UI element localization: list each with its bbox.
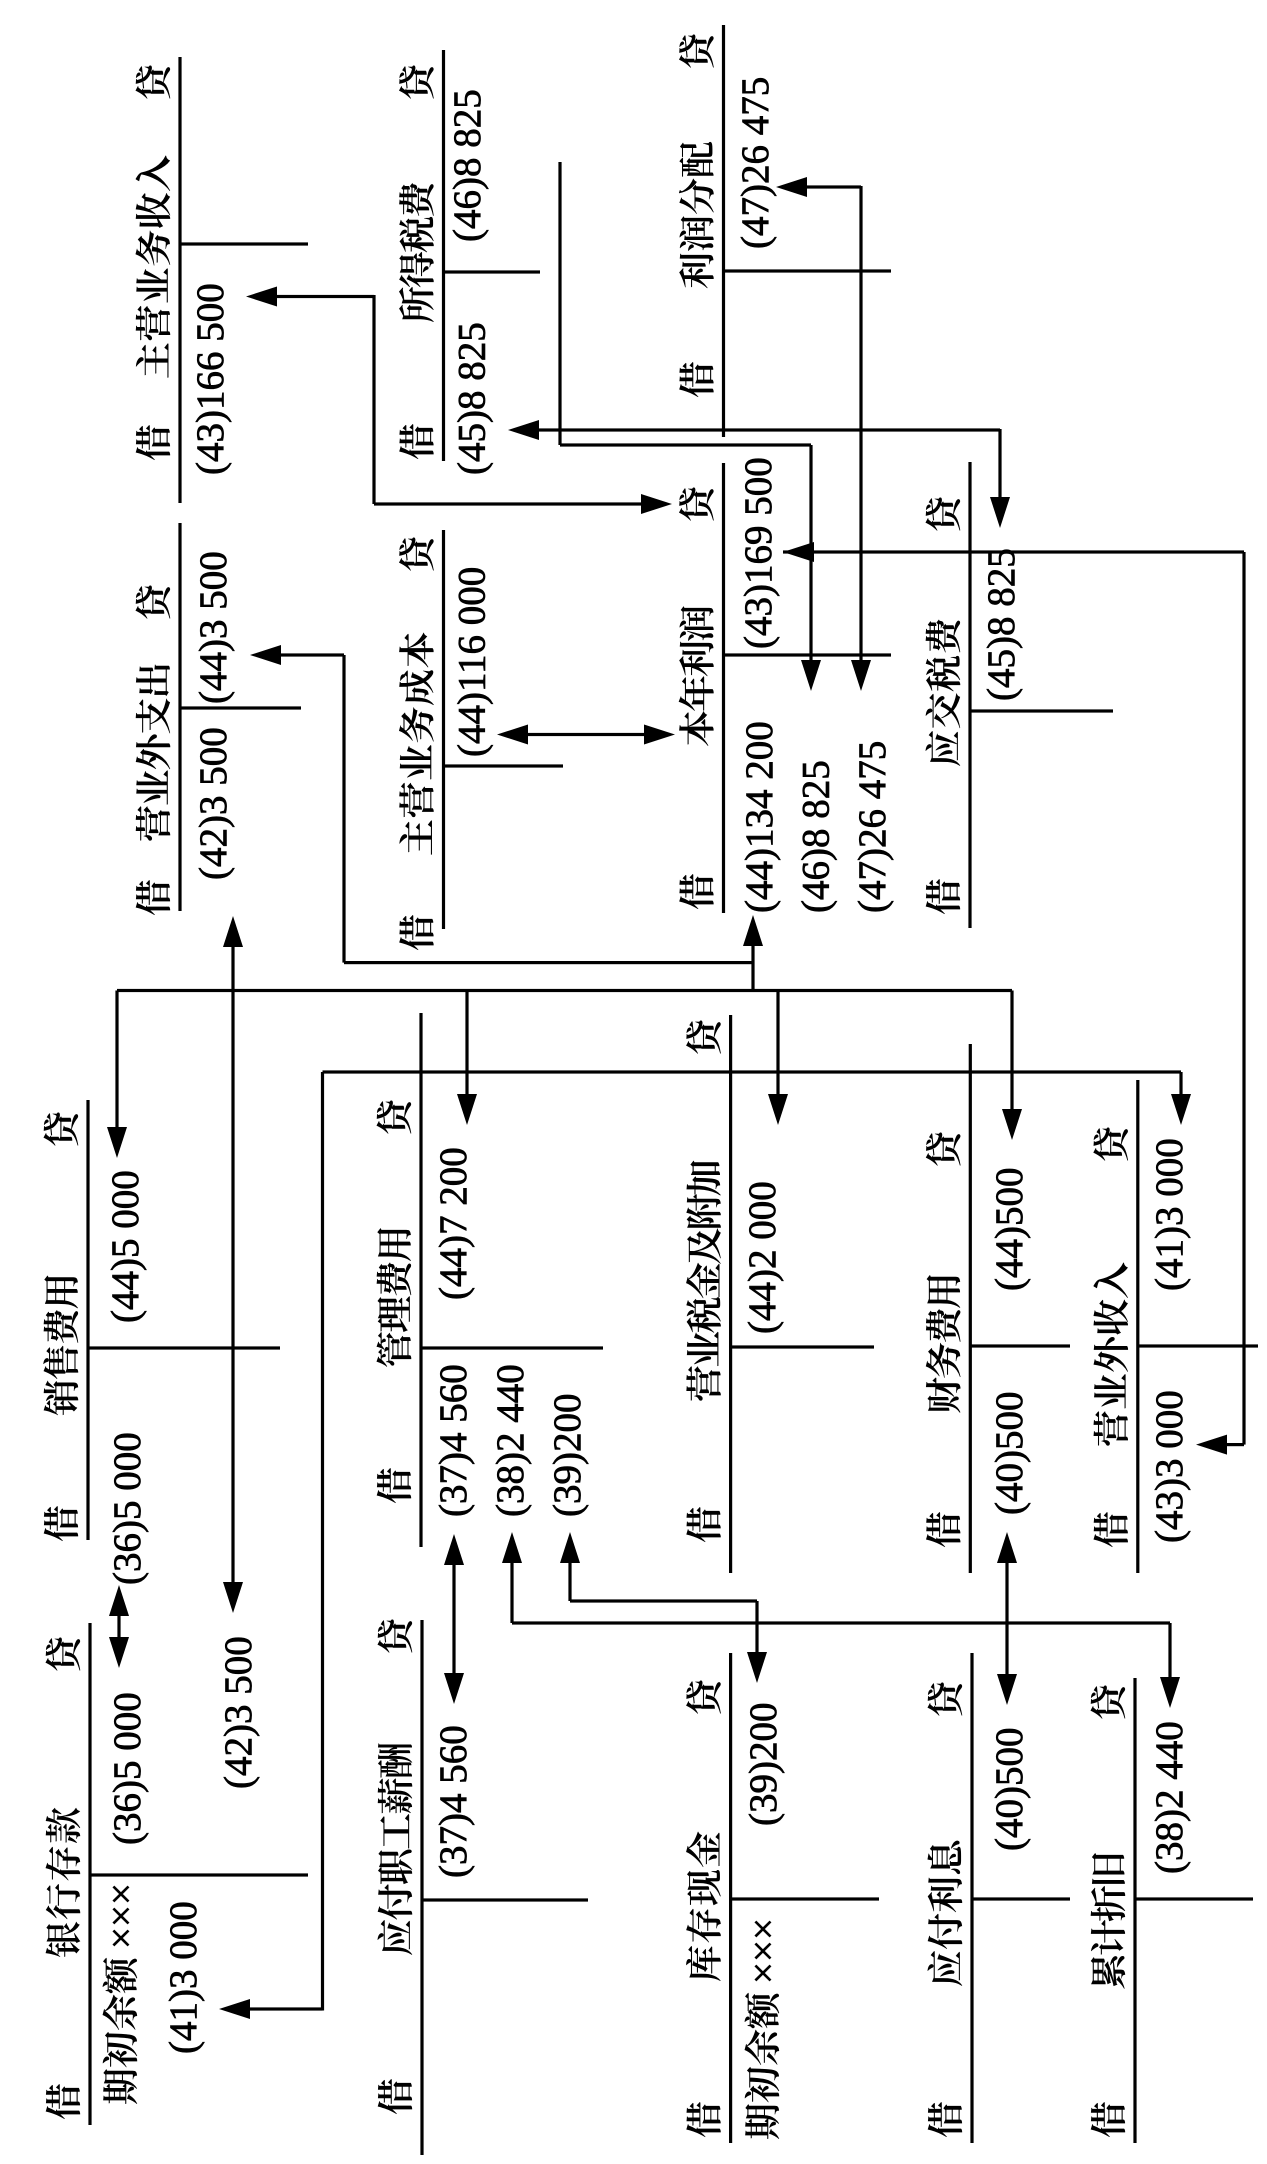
- svg-text:(36)5 000: (36)5 000: [106, 1692, 149, 1845]
- svg-text:(46)8 825: (46)8 825: [446, 89, 489, 242]
- svg-text:(44)5 000: (44)5 000: [104, 1170, 147, 1323]
- svg-text:(43)169 500: (43)169 500: [737, 457, 780, 649]
- svg-text:(39)200: (39)200: [742, 1703, 785, 1826]
- svg-text:(44)2 000: (44)2 000: [741, 1181, 784, 1334]
- svg-text:(41)3 000: (41)3 000: [1148, 1138, 1191, 1291]
- svg-text:(44)7 200: (44)7 200: [432, 1147, 475, 1300]
- svg-text:(37)4 560: (37)4 560: [432, 1364, 475, 1517]
- svg-text:×××: ×××: [100, 1883, 143, 1949]
- svg-text:(40)500: (40)500: [988, 1728, 1031, 1851]
- svg-text:(40)500: (40)500: [988, 1392, 1031, 1515]
- svg-text:(44)134 200: (44)134 200: [738, 721, 781, 913]
- svg-text:(42)3 500: (42)3 500: [192, 727, 235, 880]
- svg-text:(44)500: (44)500: [988, 1168, 1031, 1291]
- svg-text:(42)3 500: (42)3 500: [217, 1636, 260, 1789]
- svg-text:(44)116 000: (44)116 000: [451, 567, 494, 757]
- svg-text:(43)3 000: (43)3 000: [1148, 1390, 1191, 1543]
- svg-text:(44)3 500: (44)3 500: [192, 551, 235, 704]
- svg-text:(36)5 000: (36)5 000: [106, 1432, 149, 1585]
- svg-text:(41)3 000: (41)3 000: [162, 1901, 205, 2054]
- svg-text:(46)8 825: (46)8 825: [795, 760, 838, 913]
- svg-text:(37)4 560: (37)4 560: [432, 1725, 475, 1878]
- svg-text:(47)26 475: (47)26 475: [851, 741, 894, 913]
- svg-text:(38)2 440: (38)2 440: [489, 1364, 532, 1517]
- svg-text:(47)26 475: (47)26 475: [734, 77, 777, 249]
- svg-text:×××: ×××: [742, 1918, 785, 1984]
- svg-text:(38)2 440: (38)2 440: [1148, 1721, 1191, 1874]
- svg-text:(45)8 825: (45)8 825: [451, 322, 494, 475]
- svg-text:(43)166 500: (43)166 500: [189, 283, 232, 475]
- svg-text:(39)200: (39)200: [546, 1394, 589, 1517]
- svg-text:(45)8 825: (45)8 825: [980, 548, 1023, 701]
